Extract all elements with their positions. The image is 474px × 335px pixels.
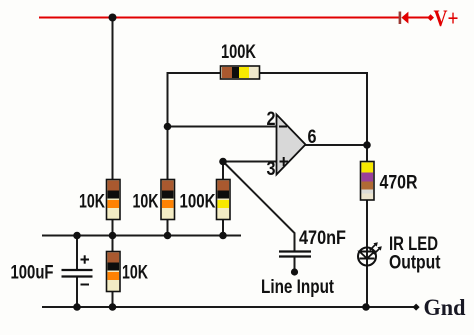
svg-text:Line Input: Line Input (261, 277, 335, 298)
wire feedback loop top (168, 73, 368, 145)
resistor R1 10K (left) (107, 180, 121, 220)
svg-text:10K: 10K (122, 262, 148, 283)
capacitor C2 470nF (279, 252, 311, 270)
svg-text:3: 3 (267, 159, 276, 180)
wire ground rail (42, 306, 414, 308)
svg-text:100K: 100K (221, 42, 256, 63)
resistor R6 100K (horizontal feedback) (221, 66, 260, 79)
node V+ terminal dot (427, 14, 434, 21)
svg-text:Gnd: Gnd (424, 295, 466, 320)
wire left vertical from V+ rail down to ground rail (112, 18, 114, 308)
wire pin2 input (168, 126, 278, 128)
wire diagonal to input cap (223, 162, 295, 252)
svg-text:10K: 10K (79, 191, 105, 212)
node junction dots (109, 14, 117, 22)
resistor R4 10K (bottom) (107, 252, 121, 292)
svg-text:V+: V+ (434, 6, 459, 31)
svg-text:10K: 10K (133, 191, 159, 212)
svg-text:2: 2 (267, 109, 276, 130)
wire op-amp output (305, 144, 367, 146)
wire diode-to-V+ segment (red) (408, 17, 429, 19)
node Gnd terminal dot (413, 304, 420, 311)
wire output branch vertical to ground rail (366, 145, 368, 307)
wire R3 branch vertical (222, 162, 224, 236)
LED D2 (IR LED) (358, 242, 382, 265)
svg-text:6: 6 (308, 127, 317, 148)
wire capacitor C1 branch vertical (76, 236, 78, 270)
wire V+ rail (red) (39, 17, 399, 19)
svg-text:Output: Output (389, 253, 441, 274)
diode D1 (polarity protection, red) (399, 12, 409, 25)
svg-text:470nF: 470nF (299, 228, 346, 249)
node Line Input terminal dot (291, 268, 298, 275)
resistor R2 10K (middle) (161, 180, 175, 220)
resistor R3 100K (vertical) (217, 180, 231, 220)
op-amp U1 (277, 115, 306, 175)
wire mid node line (42, 235, 241, 237)
wire pin3 input (223, 161, 277, 163)
svg-text:470R: 470R (380, 172, 418, 193)
svg-text:100K: 100K (180, 191, 216, 212)
capacitor C1 100uF (electrolytic) (62, 255, 93, 284)
resistor R5 470R (361, 162, 375, 201)
svg-text:100uF: 100uF (11, 262, 54, 283)
wire R2 branch vertical (167, 127, 169, 236)
